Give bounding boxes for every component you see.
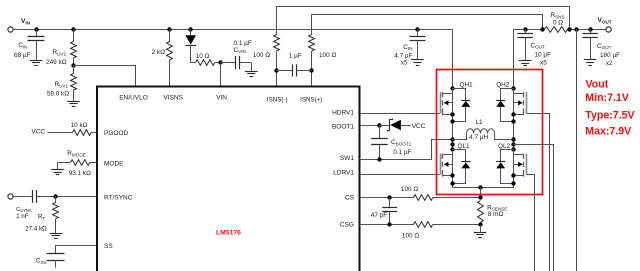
ground CVIN <box>245 72 258 77</box>
svg-text:VIN: VIN <box>216 94 227 101</box>
capacitor CIN 4.7uF x5 <box>394 29 425 67</box>
node VIN input terminal <box>8 18 31 32</box>
node RT/SYNC input terminal <box>8 194 13 199</box>
node junction ISNS(-) cap <box>274 68 278 72</box>
svg-text:x5: x5 <box>540 60 547 67</box>
ground CIN 4.7uF <box>411 60 424 66</box>
svg-text:47 pF: 47 pF <box>371 212 387 219</box>
node junction BOOT1 <box>377 123 381 127</box>
svg-text:8 mΩ: 8 mΩ <box>488 211 504 218</box>
wire HDRV1 to QH1 gate <box>360 113 440 115</box>
resistor RUV1 59k <box>47 66 77 102</box>
node junction FB tap <box>574 27 578 31</box>
ground RSENSE <box>474 233 487 238</box>
op-amp U1 LM5176 IC body <box>97 87 360 271</box>
transistor QH1 <box>441 81 474 123</box>
resistor 10R VIN filter <box>191 53 221 66</box>
svg-text:0 Ω: 0 Ω <box>553 20 563 27</box>
wire SW1 <box>360 140 453 160</box>
wire SS <box>56 246 97 254</box>
wire ISNS(-) top line <box>277 7 570 35</box>
svg-text:2 kΩ: 2 kΩ <box>152 49 166 56</box>
svg-text:SS: SS <box>104 243 113 250</box>
resistor RT 27.4k <box>25 196 58 233</box>
svg-text:4.7 µH: 4.7 µH <box>469 134 488 141</box>
svg-text:1 nF: 1 nF <box>16 213 29 220</box>
svg-text:10 Ω: 10 Ω <box>196 53 210 60</box>
ground COUT 10uF <box>519 61 532 66</box>
svg-text:Vout: Vout <box>586 79 609 91</box>
inductor L1 4.7uH <box>453 119 514 141</box>
node junction RUV2 tap <box>71 27 75 31</box>
capacitor CIN 68uF <box>14 29 44 60</box>
svg-text:EN/UVLO: EN/UVLO <box>119 94 148 101</box>
svg-text:10 kΩ: 10 kΩ <box>71 122 88 129</box>
label VCC BOOT1 <box>412 123 426 130</box>
svg-text:Min:7.1V: Min:7.1V <box>585 92 629 104</box>
transistor QL1 <box>441 143 471 186</box>
svg-text:27.4 kΩ: 27.4 kΩ <box>25 225 47 232</box>
capacitor CSYNC 1nF <box>13 190 56 220</box>
svg-text:249 kΩ: 249 kΩ <box>46 59 67 66</box>
resistor 2k VISNS <box>152 29 173 86</box>
svg-text:VCC: VCC <box>31 129 45 136</box>
svg-text:Type:7.5V: Type:7.5V <box>585 110 634 122</box>
svg-text:LM5176: LM5176 <box>216 229 241 236</box>
capacitor CVIN 0.1uF <box>221 40 252 71</box>
wire HDRV2 line <box>527 114 550 271</box>
capacitor 47pF <box>371 198 397 225</box>
svg-text:LDRV1: LDRV1 <box>333 170 354 177</box>
svg-text:59.0 kΩ: 59.0 kΩ <box>47 90 69 97</box>
svg-text:QH2: QH2 <box>496 81 510 88</box>
resistor 100R CSG <box>402 222 480 240</box>
svg-text:VISNS: VISNS <box>163 94 183 101</box>
capacitor CBOOT1 0.1uF <box>371 125 412 160</box>
wire ISNS(+) top line <box>312 15 543 35</box>
node junction SW1 mid <box>450 142 454 146</box>
wire RMODE to ground <box>57 162 59 169</box>
ground RT <box>50 234 63 239</box>
node junction SW2 mid <box>511 142 515 146</box>
wire LDRV2 line <box>527 175 535 271</box>
resistor RSNS 0R <box>545 12 568 32</box>
resistor 100R CS <box>401 186 480 200</box>
svg-text:QH1: QH1 <box>460 81 474 88</box>
svg-text:RT/SYNC: RT/SYNC <box>104 195 133 202</box>
resistor 100R ISNS(+) <box>309 35 337 87</box>
wire VIN pin <box>220 63 222 86</box>
svg-text:CS: CS <box>345 195 355 202</box>
svg-text:L1: L1 <box>475 119 483 126</box>
node junction ISNS(+) cap <box>309 68 313 72</box>
node junction 2k tap <box>167 27 171 31</box>
wire SW2 line <box>514 145 554 271</box>
wire RSENSE to ground <box>480 225 482 233</box>
label LM5176 <box>216 229 241 236</box>
svg-text:100 Ω: 100 Ω <box>401 186 418 193</box>
node junction SW2/L1 <box>511 137 515 141</box>
capacitor COUT 180uF x2 <box>582 29 620 67</box>
wire EN/UVLO <box>74 66 136 87</box>
wire VOUT rail <box>514 30 607 89</box>
svg-text:100 Ω: 100 Ω <box>253 52 270 59</box>
wire VOUT feedback drop <box>576 29 578 271</box>
node junction CIN2 tap <box>415 27 419 31</box>
node junction VIN pin <box>218 60 222 64</box>
transistor QH2 <box>496 81 526 123</box>
wire CS <box>360 197 414 199</box>
wire CSG <box>360 224 414 226</box>
node junction RUV divider <box>71 63 75 67</box>
label IC top pins <box>119 94 322 103</box>
node junction CS 47pF <box>387 195 391 199</box>
label IC left pins <box>104 130 133 250</box>
svg-text:100 Ω: 100 Ω <box>402 232 419 239</box>
svg-text:180 µF: 180 µF <box>600 52 620 59</box>
svg-text:1 µF: 1 µF <box>289 52 302 59</box>
node junction COUT2 tap <box>588 27 592 31</box>
svg-text:x5: x5 <box>401 60 408 67</box>
wire bridge to RSENSE <box>480 188 482 198</box>
wire VIN rail <box>13 30 453 89</box>
svg-text:4.7 µF: 4.7 µF <box>394 52 412 59</box>
ground RMODE <box>51 170 64 175</box>
label Vout spec <box>585 79 634 138</box>
svg-text:SW1: SW1 <box>340 155 354 162</box>
wire QH2 column <box>513 88 515 188</box>
svg-text:10 µF: 10 µF <box>535 51 552 58</box>
capacitor 1uF ISNS <box>276 52 312 76</box>
node junction diode tap <box>188 27 192 31</box>
red highlight box around H-bridge <box>437 70 543 195</box>
svg-text:PGOOD: PGOOD <box>104 130 129 137</box>
svg-text:Max:7.9V: Max:7.9V <box>585 125 631 137</box>
ground RUV1 <box>67 102 80 107</box>
capacitor COUT 10uF x5 <box>518 29 552 67</box>
transistor QL2 <box>496 143 526 186</box>
svg-text:100 Ω: 100 Ω <box>319 52 336 59</box>
wire QH1 column <box>452 88 454 188</box>
resistor 10k PGOOD <box>48 122 97 135</box>
resistor RMODE 93.1k <box>58 150 97 177</box>
node VOUT output terminal <box>598 17 612 32</box>
svg-text:VCC: VCC <box>412 123 426 130</box>
svg-text:68 µF: 68 µF <box>14 52 31 59</box>
label IC right pins <box>332 109 355 228</box>
node junction SW1/L1 <box>450 137 454 141</box>
svg-text:ISNS(+): ISNS(+) <box>300 97 322 104</box>
svg-text:BOOT1: BOOT1 <box>332 123 354 130</box>
svg-text:MODE: MODE <box>104 161 124 168</box>
diode DBOOT schottky to VCC <box>379 119 410 132</box>
resistor 100R ISNS(-) <box>253 35 280 87</box>
resistor RUV2 249k <box>46 29 76 66</box>
wire RT/SYNC to pin <box>56 196 97 198</box>
svg-text:ISNS(-): ISNS(-) <box>267 97 288 104</box>
wire LDRV1 to QL1 gate <box>360 174 440 176</box>
node junction RSNS right <box>567 27 571 31</box>
ground COUT 180uF <box>584 60 597 66</box>
node junction RT tap <box>53 194 57 198</box>
node junction CSG RSENSE <box>478 222 482 226</box>
wire BOOT1 <box>360 125 380 127</box>
ground CIN <box>30 61 43 66</box>
svg-text:x2: x2 <box>606 60 613 67</box>
node junction RSNS left <box>540 27 544 31</box>
capacitor CSS <box>36 254 65 268</box>
resistor RSENSE 8mOhm <box>478 201 508 223</box>
node junction CBOOT1/SW1 <box>377 157 381 161</box>
node junction COUT1 tap <box>523 27 527 31</box>
diode D1 VIN <box>185 29 196 63</box>
label VCC PGOOD <box>31 129 45 136</box>
svg-text:QL1: QL1 <box>458 143 471 150</box>
svg-text:0.1 µF: 0.1 µF <box>393 149 411 156</box>
node junction CSG 47pF <box>387 222 391 226</box>
svg-text:QL2: QL2 <box>498 143 511 150</box>
node junction CIN tap <box>34 27 38 31</box>
svg-text:CSG: CSG <box>340 221 354 228</box>
node junction CS RSENSE <box>478 195 482 199</box>
wire bridge bottom rail <box>453 187 514 189</box>
node junction bridge bottom <box>478 185 482 189</box>
svg-text:93.1 kΩ: 93.1 kΩ <box>69 170 91 177</box>
svg-text:HDRV1: HDRV1 <box>332 109 354 116</box>
